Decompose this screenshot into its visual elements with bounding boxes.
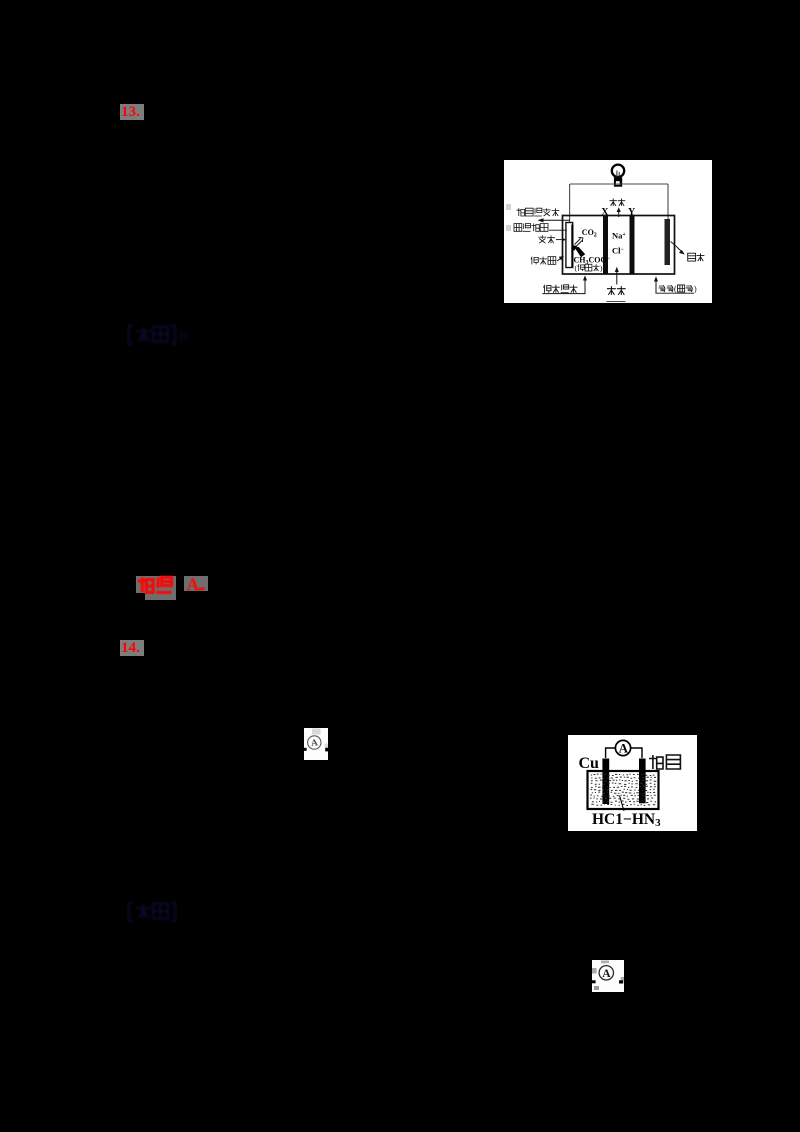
question number 13 highlight box [120, 104, 144, 120]
highlight box behind 故选 [136, 576, 177, 593]
figure 1: microbial desalination cell diagram [504, 160, 712, 303]
ammeter 1 right lead [325, 748, 328, 752]
wire: top horizontal [570, 183, 668, 185]
red answer text 故选A。 [135, 574, 210, 598]
inline ammeter 1 white background [304, 728, 328, 760]
pointer line to solution label [620, 796, 625, 812]
biofilm on electrode right edge [571, 225, 573, 268]
ammeter 2 circle [599, 966, 613, 980]
gray artifact top [312, 729, 321, 735]
arrow electrode to 正极 [671, 242, 683, 253]
label 处理后废水 (treated wastewater) [517, 208, 560, 216]
red char 选 [156, 577, 171, 592]
underline under 海水 [606, 301, 625, 303]
wire: right vertical [667, 184, 669, 220]
answer label char 答 [136, 327, 151, 342]
svg-text:HC1−HN3: HC1−HN3 [592, 811, 661, 829]
electrolyte stipple [590, 774, 656, 805]
inline ammeter image 1 [304, 728, 328, 760]
question number 14 text [121, 640, 144, 656]
arrow 负极 to electrode [556, 239, 565, 241]
gray artifact right [620, 977, 623, 981]
underline under 空气(氧气) [656, 292, 695, 294]
arrow up from 海水 into cell [616, 270, 618, 285]
highlight box behind A. [184, 576, 208, 592]
arrow 生物膜 to electrode [557, 258, 562, 262]
ammeter 2 right lead [619, 980, 623, 983]
wire left [606, 748, 616, 758]
label 负极 (negative electrode) [538, 235, 555, 243]
answer label 2 bracket 】 [171, 903, 175, 921]
question number 13 text [121, 104, 144, 120]
svg-text:B: B [178, 330, 188, 346]
light bulb [612, 165, 624, 187]
graphite electrode bar [639, 759, 646, 804]
positive electrode (solid bar) [665, 219, 671, 265]
answer label bracket 【 [129, 326, 133, 344]
negative electrode (hollow, with biofilm) [566, 223, 573, 268]
question number 14 highlight box [120, 640, 144, 656]
highlight box lower strip [145, 593, 176, 600]
arrow up air inlet [655, 279, 657, 293]
ion exchange membrane Y [630, 216, 635, 275]
svg-text:): ) [694, 285, 697, 294]
copper electrode bar [602, 759, 609, 805]
answer label 2 char 案 [153, 904, 168, 919]
answer label 2 char 答 [136, 904, 151, 919]
label 正极 (positive electrode) [688, 253, 705, 261]
arrow up to 淡水 [618, 210, 620, 217]
svg-text:A: A [602, 968, 611, 980]
answer label char 案 [153, 327, 168, 342]
answer label 2 [126, 900, 188, 926]
svg-text:X: X [601, 207, 609, 218]
ammeter 1 left lead [304, 748, 307, 751]
label 空气(氧气) (air/oxygen) [659, 285, 673, 292]
arrow pointing left (treated water outlet) [540, 219, 570, 221]
label 硫还原菌 (sulfate reducing bacteria) [514, 224, 548, 232]
gray artifact left [592, 968, 597, 974]
gray artifact square 1 [506, 204, 511, 210]
thick black arrow (electron/acetate flow) [572, 245, 578, 251]
figure 2 white background [568, 735, 697, 831]
label 淡水 (fresh water) [610, 199, 626, 206]
answer label 1 [126, 323, 188, 349]
wire right [631, 748, 642, 758]
red char 故 [138, 577, 153, 592]
figure 2: Cu-graphite galvanic cell [568, 735, 697, 831]
svg-text:A: A [619, 741, 629, 756]
inline ammeter image 2 [592, 960, 624, 992]
label 海水 (seawater) [607, 286, 626, 295]
label 石墨 (graphite) [649, 755, 680, 769]
ammeter 2 left lead [592, 980, 596, 983]
beaker [588, 771, 659, 809]
gray artifact bottom-left [594, 986, 599, 990]
svg-text:A: A [187, 574, 200, 594]
line from 硫还原菌 to electrode [549, 229, 567, 231]
label 有机废水 (organic wastewater) [544, 285, 578, 293]
inline ammeter 2 white background [592, 960, 624, 992]
ammeter circle [615, 740, 630, 755]
answer label bracket 】 [171, 326, 175, 344]
svg-text:(: ( [674, 285, 677, 294]
svg-text:Y: Y [628, 207, 636, 218]
wire: left vertical [569, 184, 571, 265]
hollow arrow to CO2 [575, 238, 583, 247]
gray artifact top [601, 961, 609, 964]
ammeter 1 circle [308, 736, 321, 749]
svg-text:Cu: Cu [579, 755, 600, 772]
gray artifact square 2 [506, 225, 511, 231]
label 生物膜 (biofilm) [531, 257, 556, 265]
answer label 2 bracket 【 [129, 903, 133, 921]
figure 1 white background [504, 160, 712, 303]
electrolysis cell tank [563, 216, 675, 275]
ion exchange membrane X [603, 216, 608, 275]
gray artifact right [325, 744, 329, 749]
underline + connector + arrow up (organic wastewater inlet) [542, 278, 585, 294]
